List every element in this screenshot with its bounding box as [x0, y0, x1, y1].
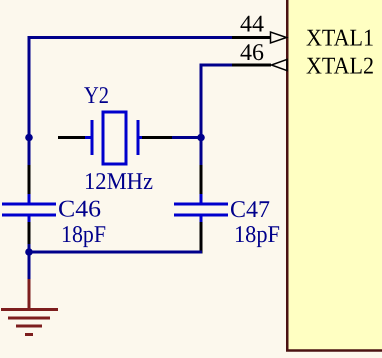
IC U1 body (MCU block with XTAL pins)	[287, 0, 382, 351]
svg-text:18pF: 18pF	[234, 222, 280, 248]
wire right node down to C47	[200, 138, 203, 166]
wire top horizontal XTAL1 net	[28, 36, 233, 39]
wire pin46 horizontal XTAL2 net	[200, 64, 233, 67]
pin name XTAL2	[306, 54, 374, 80]
capacitor C46	[2, 165, 56, 245]
wire ground node to ground symbol	[28, 252, 31, 281]
value 12MHz	[84, 169, 153, 195]
pin 46 (XTAL2)	[232, 59, 287, 70]
wire left node down to C46	[28, 138, 31, 166]
ground	[1, 279, 58, 335]
svg-text:18pF: 18pF	[61, 222, 106, 248]
wire bottom horizontal GND net	[29, 251, 202, 254]
designator Y2	[84, 83, 109, 109]
capacitor C47	[174, 165, 228, 254]
crystal Y2	[58, 112, 172, 164]
svg-text:XTAL1: XTAL1	[306, 26, 374, 52]
value 18pF C46	[61, 222, 106, 248]
pin 44 (XTAL1)	[232, 32, 287, 43]
wire left vertical XTAL1 net	[28, 36, 31, 139]
node crystal right junction	[197, 134, 205, 142]
pin number 46	[240, 40, 264, 66]
wire crystal right to node	[172, 136, 201, 139]
wire C46 to ground node	[28, 244, 31, 252]
pin number 44	[240, 12, 264, 38]
node crystal left junction	[25, 134, 33, 142]
designator C47	[230, 197, 270, 223]
svg-text:C46: C46	[58, 197, 101, 223]
svg-text:Y2: Y2	[84, 83, 109, 109]
svg-text:12MHz: 12MHz	[84, 169, 153, 195]
value 18pF C47	[234, 222, 280, 248]
svg-text:XTAL2: XTAL2	[306, 54, 374, 80]
svg-text:C47: C47	[230, 197, 270, 223]
designator C46	[58, 197, 101, 223]
svg-text:44: 44	[240, 12, 264, 38]
node ground junction	[25, 248, 33, 256]
pin name XTAL1	[306, 26, 374, 52]
svg-text:46: 46	[240, 40, 264, 66]
wire right vertical XTAL2 net	[200, 64, 203, 166]
